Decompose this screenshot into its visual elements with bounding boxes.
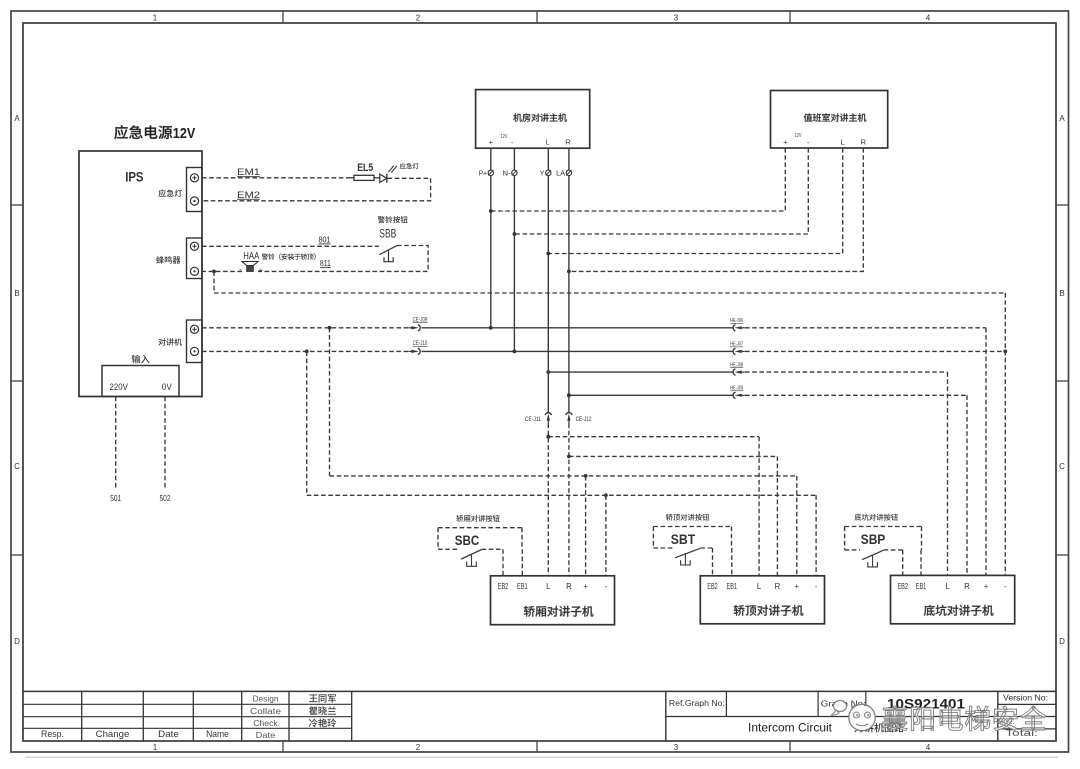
svg-text:+: + <box>783 138 788 147</box>
svg-text:C: C <box>14 462 20 471</box>
svg-text:R: R <box>964 582 970 591</box>
svg-text:CE-J10: CE-J10 <box>413 341 428 347</box>
svg-text:LA: LA <box>556 168 565 177</box>
svg-text:EB2: EB2 <box>897 582 908 591</box>
svg-text:Resp.: Resp. <box>41 729 64 740</box>
svg-text:C: C <box>1059 462 1065 471</box>
svg-text:EB1: EB1 <box>916 582 927 591</box>
svg-text:1: 1 <box>153 14 158 23</box>
svg-text:3: 3 <box>674 14 679 23</box>
svg-text:EM1: EM1 <box>237 167 260 177</box>
svg-text:502: 502 <box>160 493 171 503</box>
svg-text:4: 4 <box>926 14 931 23</box>
svg-text:EB1: EB1 <box>727 582 738 591</box>
svg-text:B: B <box>14 289 19 298</box>
svg-text:HE-J09: HE-J09 <box>730 386 743 392</box>
svg-text:Name: Name <box>206 729 229 740</box>
svg-text:L: L <box>945 582 950 591</box>
svg-text:Design: Design <box>253 693 279 703</box>
svg-text:+: + <box>259 265 264 274</box>
svg-text:SBT: SBT <box>671 531 696 547</box>
svg-text:801: 801 <box>319 235 331 245</box>
svg-text:EL5: EL5 <box>357 162 373 174</box>
svg-text:4: 4 <box>926 743 931 752</box>
svg-text:A: A <box>14 114 20 123</box>
svg-text:L: L <box>757 582 762 591</box>
svg-text:12V: 12V <box>501 134 508 140</box>
svg-text:CE-J09: CE-J09 <box>413 317 428 323</box>
svg-text:D: D <box>14 637 20 646</box>
svg-text:EB2: EB2 <box>498 582 509 591</box>
svg-text:R: R <box>566 582 572 591</box>
svg-text:12V: 12V <box>173 125 196 142</box>
svg-text:Collate: Collate <box>250 706 281 716</box>
svg-text:Change: Change <box>96 729 130 740</box>
svg-text:HE-J08: HE-J08 <box>730 362 743 368</box>
svg-text:12V: 12V <box>795 133 802 139</box>
svg-text:Date: Date <box>158 729 179 740</box>
svg-text:N-: N- <box>503 168 512 177</box>
svg-text:Intercom Circuit: Intercom Circuit <box>748 720 833 734</box>
svg-text:+: + <box>795 582 800 591</box>
svg-text:L: L <box>841 138 845 147</box>
svg-text:2: 2 <box>416 743 421 752</box>
svg-text:D: D <box>1059 637 1065 646</box>
svg-text:1: 1 <box>153 743 158 752</box>
svg-text:R: R <box>861 138 867 147</box>
svg-text:CE-J12: CE-J12 <box>576 417 593 423</box>
svg-text:L: L <box>546 582 551 591</box>
svg-text:Ref.Graph No:: Ref.Graph No: <box>669 698 725 708</box>
svg-text:IPS: IPS <box>125 170 143 185</box>
svg-text:R: R <box>565 138 571 147</box>
svg-text:B: B <box>1059 289 1064 298</box>
svg-text:SBB: SBB <box>379 229 396 241</box>
svg-text:2: 2 <box>416 14 421 23</box>
svg-text:-: - <box>605 582 608 591</box>
svg-text:+: + <box>489 138 494 147</box>
svg-text:Check: Check <box>253 718 278 728</box>
svg-text:+: + <box>984 582 989 591</box>
svg-text:R: R <box>775 582 781 591</box>
svg-text:EM2: EM2 <box>237 190 260 200</box>
svg-text:P+: P+ <box>479 168 487 177</box>
svg-text:HAA: HAA <box>243 251 259 262</box>
svg-text:3: 3 <box>674 743 679 752</box>
svg-text:220V: 220V <box>110 382 128 392</box>
svg-text:Y: Y <box>540 168 545 177</box>
svg-text:0V: 0V <box>162 382 172 392</box>
svg-text:Date: Date <box>256 730 276 740</box>
svg-text:A: A <box>1059 114 1065 123</box>
svg-text:EB2: EB2 <box>707 582 718 591</box>
svg-text:+: + <box>583 582 588 591</box>
svg-text:CE-J11: CE-J11 <box>525 417 542 423</box>
svg-text:-: - <box>815 582 818 591</box>
svg-text:SBC: SBC <box>455 532 480 548</box>
svg-text:SBP: SBP <box>861 531 886 547</box>
svg-text:HE-J07: HE-J07 <box>730 342 743 348</box>
svg-text:EB1: EB1 <box>517 582 528 591</box>
svg-text:L: L <box>545 138 549 147</box>
svg-text:HE-J06: HE-J06 <box>730 318 743 324</box>
svg-text:-: - <box>239 265 242 274</box>
svg-text:Version No:: Version No: <box>1003 693 1048 703</box>
svg-text:-: - <box>1004 582 1007 591</box>
svg-text:811: 811 <box>320 258 331 268</box>
svg-text:501: 501 <box>110 493 121 503</box>
